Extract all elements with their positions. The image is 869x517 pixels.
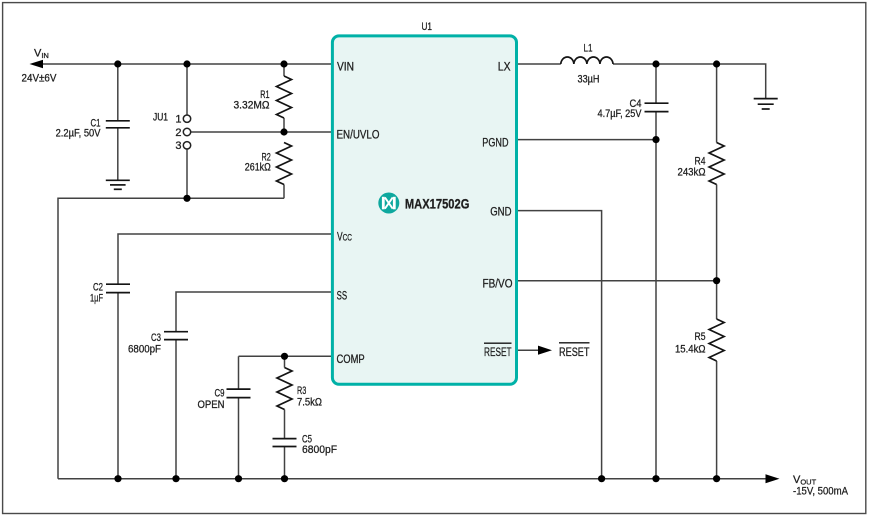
svg-text:33µH: 33µH xyxy=(578,74,600,86)
junction dot VIN-C1 xyxy=(114,60,121,67)
wire PGND xyxy=(516,139,657,141)
overline for external RESET xyxy=(559,342,590,344)
wire C4 top stub xyxy=(655,64,657,103)
inductor L1 xyxy=(561,57,613,64)
svg-text:C3: C3 xyxy=(151,332,161,344)
junction dot LX-R4 xyxy=(713,60,720,67)
junction dot COMP-R3 xyxy=(281,353,288,360)
svg-text:24V±6V: 24V±6V xyxy=(22,73,58,85)
svg-text:LX: LX xyxy=(498,59,511,73)
svg-text:MAX17502G: MAX17502G xyxy=(405,195,470,211)
arrow VOUT output xyxy=(766,474,780,483)
svg-text:C9: C9 xyxy=(215,388,225,400)
capacitor C9 xyxy=(227,389,251,398)
svg-text:15.4kΩ: 15.4kΩ xyxy=(675,344,706,356)
junction dot EN-R1R2 xyxy=(280,128,287,135)
junction dot FBVO-R4R5 xyxy=(713,277,720,284)
svg-text:6800pF: 6800pF xyxy=(302,444,337,456)
svg-text:SS: SS xyxy=(337,288,348,302)
svg-text:243kΩ: 243kΩ xyxy=(678,167,706,179)
wire R3 to C5 xyxy=(284,410,286,439)
wire jumper-to-R2 bottom horizontal xyxy=(58,198,284,478)
svg-text:1µF: 1µF xyxy=(90,293,103,305)
jumper JU1 pin 3 circle xyxy=(183,142,190,149)
wire ground rail bottom xyxy=(58,478,766,480)
svg-text:R5: R5 xyxy=(695,331,706,343)
svg-text:VIN: VIN xyxy=(337,59,354,73)
capacitor C2 xyxy=(106,284,130,292)
svg-text:R4: R4 xyxy=(695,155,706,167)
wire Vcc to C2 xyxy=(118,234,333,284)
svg-text:RESET: RESET xyxy=(559,345,590,359)
svg-text:7.5kΩ: 7.5kΩ xyxy=(297,397,322,409)
wire C2 bottom xyxy=(117,293,119,479)
svg-text:U1: U1 xyxy=(422,21,433,33)
svg-text:FB/VO: FB/VO xyxy=(483,276,513,290)
op-amp U1 IC body MAX17502G xyxy=(332,36,516,384)
junction dot rail C5 xyxy=(281,475,288,482)
wire COMP to C9 xyxy=(238,356,240,388)
jumper JU1 pin 1 circle xyxy=(183,115,190,122)
svg-text:4.7µF, 25V: 4.7µF, 25V xyxy=(598,108,643,120)
wire R4 top xyxy=(716,64,718,143)
svg-text:R3: R3 xyxy=(297,385,306,397)
wire EN/UVLO xyxy=(191,131,333,133)
junction dot rail C4 xyxy=(652,475,659,482)
wire GND xyxy=(516,211,602,479)
wire COMP xyxy=(239,355,333,357)
capacitor C1 xyxy=(106,121,130,128)
wire C9 bottom xyxy=(238,398,240,479)
svg-text:3.32MΩ: 3.32MΩ xyxy=(234,99,270,111)
svg-text:VCC: VCC xyxy=(337,229,352,243)
resistor R5 xyxy=(709,319,724,361)
svg-text:GND: GND xyxy=(490,204,511,218)
wire SS to C3 xyxy=(176,292,333,331)
jumper JU1 pin 2 circle xyxy=(183,128,190,135)
svg-text:2.2µF, 50V: 2.2µF, 50V xyxy=(56,128,101,140)
junction dot rail GND xyxy=(598,475,605,482)
svg-text:261kΩ: 261kΩ xyxy=(245,162,271,174)
arrow RESET output xyxy=(538,346,552,355)
overline for internal RESET xyxy=(484,342,512,344)
arrow VIN input xyxy=(30,60,44,69)
wire R3 top stub xyxy=(284,356,286,367)
svg-text:PGND: PGND xyxy=(482,136,508,150)
wire C3 bottom xyxy=(175,340,177,479)
resistor R3 xyxy=(277,368,292,410)
svg-text:3: 3 xyxy=(175,140,181,152)
wire C1 top stub xyxy=(117,64,119,120)
junction dot rail C2 xyxy=(114,475,121,482)
Maxim logo circle xyxy=(378,193,399,214)
wire VIN rail xyxy=(41,63,333,65)
wire R5 bottom xyxy=(716,361,718,479)
ground symbol under C1 xyxy=(106,180,130,189)
svg-text:6800pF: 6800pF xyxy=(128,344,161,356)
junction dot rail C3 xyxy=(172,475,179,482)
resistor R4 xyxy=(709,143,724,185)
capacitor C4 xyxy=(645,103,669,111)
capacitor C3 xyxy=(164,332,188,340)
resistor R1 xyxy=(277,76,292,118)
wire LX right to ground xyxy=(613,64,766,99)
wire C4 bottom / PGND vertical xyxy=(655,112,657,479)
junction dot PGND-C4 xyxy=(652,136,659,143)
svg-text:EN/UVLO: EN/UVLO xyxy=(337,128,380,142)
wire R1 top stub xyxy=(283,64,285,76)
svg-text:-15V, 500mA: -15V, 500mA xyxy=(793,485,849,497)
capacitor C5 xyxy=(273,439,297,447)
wire JU1 top xyxy=(186,64,188,115)
wire R2 bottom stub xyxy=(283,185,285,199)
wire LX left xyxy=(516,63,561,65)
ground symbol top right xyxy=(754,99,778,109)
wire JU1 bottom xyxy=(186,149,188,198)
junction dot JU1 bottom xyxy=(183,195,190,202)
svg-text:OPEN: OPEN xyxy=(198,399,225,411)
svg-text:JU1: JU1 xyxy=(153,112,168,124)
wire RESET out xyxy=(516,349,540,351)
wire FB/VO xyxy=(516,280,717,282)
junction dot LX-C4 xyxy=(652,60,659,67)
wire C1 bottom stub to ground xyxy=(117,129,119,181)
wire R5 top stub xyxy=(716,281,718,319)
svg-text:2: 2 xyxy=(175,127,181,139)
svg-text:1: 1 xyxy=(175,114,181,126)
svg-text:L1: L1 xyxy=(584,42,593,54)
svg-text:RESET: RESET xyxy=(484,345,512,359)
resistor R2 xyxy=(277,143,292,185)
junction dot rail C9 xyxy=(235,475,242,482)
junction dot rail R5 xyxy=(713,475,720,482)
svg-text:COMP: COMP xyxy=(337,352,365,366)
wire C5 bottom xyxy=(284,447,286,479)
junction dot VIN-JU1 xyxy=(183,60,190,67)
wire R1 bottom stub xyxy=(283,118,285,132)
junction dot VIN-R1 xyxy=(280,60,287,67)
wire R4 bottom to FB/VO xyxy=(716,185,718,281)
